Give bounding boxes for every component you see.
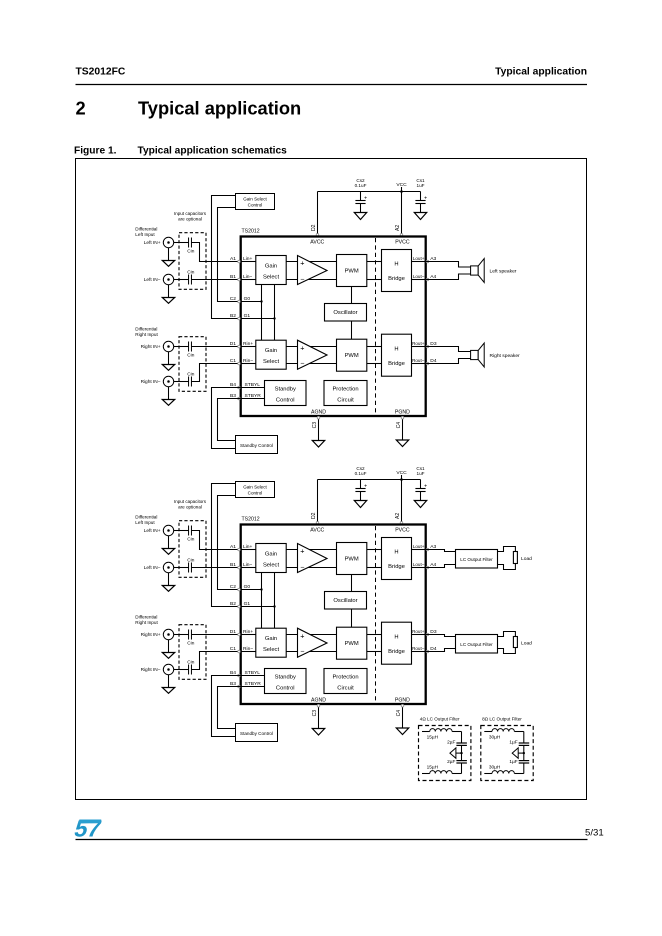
svg-text:Rin−: Rin− xyxy=(243,358,253,364)
svg-text:15µH: 15µH xyxy=(427,735,439,741)
wire G0 net xyxy=(241,300,263,302)
pin label A4 (lower schematic) xyxy=(430,562,436,568)
wire to LC filter left + xyxy=(426,550,456,552)
svg-text:Bridge: Bridge xyxy=(388,361,405,367)
dashed domain separator (lower schematic) xyxy=(375,526,377,703)
pin connector B3 (lower schematic) xyxy=(238,685,241,688)
label Cs2 0.1uF xyxy=(355,466,367,476)
label Cin (Left 2) xyxy=(187,558,194,564)
wire Left IN+ to Cin xyxy=(174,530,189,532)
inductor 15&#181;H bottom (4&#937; LC Output Filter) xyxy=(422,765,462,774)
svg-text:TS2012: TS2012 xyxy=(242,229,260,235)
svg-text:PVCC: PVCC xyxy=(395,527,410,533)
wire LC filter to load bottom left xyxy=(498,564,516,570)
pin label Lout+ (lower schematic) xyxy=(413,544,425,549)
PWM block right channel xyxy=(337,339,367,371)
pin connector A3 xyxy=(426,260,429,263)
wire Cin to IC pin (Left IN-) xyxy=(191,279,240,281)
input jack Right IN- xyxy=(141,664,174,674)
pin label D4 (lower schematic) xyxy=(430,646,437,652)
label PGND xyxy=(395,409,410,415)
pin connector B3 xyxy=(238,397,241,400)
wire Left IN- to Cin xyxy=(174,279,189,281)
pin label Lin&#8722; xyxy=(243,562,253,568)
svg-text:B1: B1 xyxy=(230,274,236,280)
LC output filter block left xyxy=(456,550,498,569)
wire right channel (lower schematic) input- row xyxy=(241,651,256,653)
ground below Right IN- xyxy=(162,675,174,694)
svg-text:Lout+: Lout+ xyxy=(413,544,425,549)
input jack Left IN+ xyxy=(144,237,174,247)
pin connector A3 (lower schematic) xyxy=(426,548,429,551)
svg-text:Control: Control xyxy=(248,203,263,208)
label TS2012 xyxy=(242,229,260,235)
wire left channel (lower schematic) input+ row xyxy=(241,549,256,551)
svg-text:Differential: Differential xyxy=(135,515,157,520)
wire Right IN+ to Cin xyxy=(174,346,189,348)
pin connector A1 (lower schematic) xyxy=(238,548,241,551)
pin label D2 xyxy=(311,224,317,231)
svg-text:Control: Control xyxy=(248,491,263,496)
svg-text:are optional: are optional xyxy=(178,217,202,222)
wire B4 to external standby control (lower schematic) xyxy=(212,676,241,737)
H-bridge block left channel xyxy=(382,250,412,292)
ground PGND (lower schematic) xyxy=(396,728,408,735)
svg-text:−: − xyxy=(300,358,304,367)
label Cin (Right 2) xyxy=(187,660,194,666)
svg-text:8Ω LC Output Filter: 8Ω LC Output Filter xyxy=(482,717,522,722)
svg-text:Lout+: Lout+ xyxy=(413,256,425,261)
gain select block left channel (lower schematic) xyxy=(256,544,286,573)
svg-text:0.1uF: 0.1uF xyxy=(355,183,367,188)
svg-text:Standby: Standby xyxy=(275,675,296,681)
ground below Cs2 xyxy=(354,213,366,220)
wire Right IN- to Cin xyxy=(174,669,189,671)
svg-text:+: + xyxy=(364,483,367,489)
svg-text:+: + xyxy=(424,195,427,201)
wire Left IN+ to Cin xyxy=(174,242,189,244)
svg-text:Rout−: Rout− xyxy=(412,646,425,651)
input jack Right IN+ xyxy=(141,629,174,639)
svg-text:Load: Load xyxy=(521,641,532,647)
wire Cin to IC pin (Right IN+) xyxy=(191,346,240,348)
pin label C1 (lower schematic) xyxy=(230,646,237,652)
svg-text:+: + xyxy=(300,258,304,267)
op-amp right channel xyxy=(298,340,328,369)
svg-text:Protection: Protection xyxy=(332,387,358,393)
optional input capacitors dashed box (Right) xyxy=(179,337,206,392)
pin connector D3 xyxy=(426,345,429,348)
input jack Right IN- xyxy=(141,376,174,386)
svg-text:B2: B2 xyxy=(230,313,236,319)
wire H-bridge out- left channel (lower schematic) xyxy=(412,567,426,569)
dashed domain separator xyxy=(375,238,377,415)
wire PVCC pin A2 xyxy=(401,192,403,237)
capacitor Cs2 xyxy=(355,192,367,213)
label PVCC (lower schematic) xyxy=(395,527,410,533)
section heading Typical application xyxy=(138,98,301,119)
wire to LC filter right - xyxy=(426,649,456,652)
wire right channel (lower schematic) input+ row xyxy=(241,634,256,636)
protection circuit block (lower schematic) xyxy=(324,669,367,694)
svg-text:B1: B1 xyxy=(230,562,236,568)
svg-text:PWM: PWM xyxy=(345,268,359,274)
capacitor 1&#181;F bottom (8&#937; LC Output Filter) xyxy=(509,759,529,765)
pin label Rin+ xyxy=(243,341,253,347)
label Cin (Right 1) xyxy=(187,353,194,359)
svg-text:Oscillator: Oscillator xyxy=(333,598,357,604)
svg-text:C1: C1 xyxy=(230,646,237,652)
svg-text:A2: A2 xyxy=(395,513,401,519)
pin connector B2 (lower schematic) xyxy=(238,605,241,608)
pin label Rin&#8722; xyxy=(243,646,253,652)
svg-text:+: + xyxy=(300,546,304,555)
wire G0 net (lower schematic) xyxy=(241,588,263,590)
IC TS2012 body xyxy=(241,237,426,417)
wire gain-select to PWM - left channel xyxy=(286,279,336,281)
wire AVCC pin D2 xyxy=(317,192,319,237)
svg-text:PVCC: PVCC xyxy=(395,239,410,245)
label Cs1 1uF xyxy=(416,466,425,476)
capacitor Cs2 xyxy=(355,480,367,501)
svg-text:Lin−: Lin− xyxy=(243,274,253,280)
wire H-bridge out+ left channel (lower schematic) xyxy=(412,549,426,551)
svg-text:Left IN−: Left IN− xyxy=(144,277,161,283)
svg-text:Rin−: Rin− xyxy=(243,646,253,652)
capacitor 2&#181;F top (4&#937; LC Output Filter) xyxy=(447,740,467,746)
svg-text:D1: D1 xyxy=(230,629,237,635)
label VCC xyxy=(396,182,407,193)
speaker load (4&#937; LC Output Filter) xyxy=(450,748,463,758)
ground below Left IN+ xyxy=(162,248,174,267)
wire PGND C4 (lower schematic) xyxy=(402,704,404,728)
svg-text:Gain Select: Gain Select xyxy=(243,484,267,489)
external standby control box (lower schematic) xyxy=(236,724,278,742)
svg-text:2µF: 2µF xyxy=(447,759,455,765)
svg-text:Cs2: Cs2 xyxy=(356,466,365,471)
wire to Left speaker + xyxy=(426,262,471,268)
wire PWM to H-bridge top left channel (lower schematic) xyxy=(367,549,382,551)
pin label D1 (lower schematic) xyxy=(230,629,237,635)
svg-text:VCC: VCC xyxy=(396,470,407,476)
label 8&#937; LC Output Filter xyxy=(482,717,522,722)
wire PWM to H-bridge top left channel xyxy=(367,261,382,263)
capacitor label C4 xyxy=(396,422,402,429)
label Cin (Right 1) xyxy=(187,641,194,647)
pin connector B4 (lower schematic) xyxy=(238,674,241,677)
wire left channel (lower schematic) input- row xyxy=(241,567,256,569)
wire AVCC pin D2 xyxy=(317,480,319,525)
page number 5/31 xyxy=(585,828,604,839)
wire AGND C3 xyxy=(318,416,320,441)
pin label D3 xyxy=(430,341,437,347)
wire gain-select-control to G0/C2 xyxy=(218,208,241,302)
input jack Left IN- xyxy=(144,562,174,572)
wire H-bridge out- right channel (lower schematic) xyxy=(412,651,426,653)
svg-text:Control: Control xyxy=(276,398,295,404)
IC TS2012 body (lower schematic) xyxy=(241,525,426,705)
svg-text:Standby Control: Standby Control xyxy=(240,443,273,448)
svg-text:Standby Control: Standby Control xyxy=(240,731,273,736)
ground below Right IN- xyxy=(162,387,174,406)
label Cin (Right 2) xyxy=(187,372,194,378)
wire gain-select to PWM - right channel (lower schematic) xyxy=(286,651,336,653)
svg-text:1µF: 1µF xyxy=(509,759,517,765)
wire oscillator to PWM2 xyxy=(351,321,353,339)
svg-text:Left IN+: Left IN+ xyxy=(144,528,161,534)
wire STBYL xyxy=(241,387,265,389)
label PVCC xyxy=(395,239,410,245)
label VCC xyxy=(396,470,407,481)
svg-text:H: H xyxy=(394,262,398,268)
svg-text:Gain Select: Gain Select xyxy=(243,196,267,201)
gain select control box (lower schematic) xyxy=(236,482,275,498)
pin label D2 xyxy=(311,512,317,519)
pin connector D3 (lower schematic) xyxy=(426,633,429,636)
pin connector A1 xyxy=(238,260,241,263)
svg-text:Right speaker: Right speaker xyxy=(490,353,521,359)
pin connector D1 (lower schematic) xyxy=(238,633,241,636)
pin label C1 xyxy=(230,358,237,364)
pin connector D4 (lower schematic) xyxy=(426,650,429,653)
wire PWM to H-bridge bottom right channel xyxy=(367,363,382,365)
wire H-bridge out+ right channel xyxy=(412,346,426,348)
pin label D1 xyxy=(230,341,237,347)
svg-text:4Ω LC Output Filter: 4Ω LC Output Filter xyxy=(420,717,460,722)
svg-text:Circuit: Circuit xyxy=(337,686,354,692)
label Load left xyxy=(521,556,532,562)
input jack Left IN- xyxy=(144,274,174,284)
ST logo xyxy=(72,816,104,842)
wire to LC filter left - xyxy=(426,565,456,568)
optional input capacitors dashed box (Left) xyxy=(179,233,206,290)
op-amp right channel (lower schematic) xyxy=(298,628,328,657)
svg-text:Lin+: Lin+ xyxy=(243,544,253,550)
footer rule xyxy=(76,839,588,841)
label Differential Right Input xyxy=(135,615,158,626)
oscillator block xyxy=(325,304,367,322)
svg-text:Cin: Cin xyxy=(187,353,194,359)
svg-text:VCC: VCC xyxy=(396,182,407,188)
svg-text:Input capacitors: Input capacitors xyxy=(174,211,207,216)
wire Cin to IC pin (Left IN+) xyxy=(191,531,240,550)
capacitor 1&#181;F top (8&#937; LC Output Filter) xyxy=(509,740,529,746)
section number 2 xyxy=(76,98,86,119)
capacitor Cs1 xyxy=(415,480,427,501)
pin connector D2 xyxy=(316,522,319,525)
label Cin (Left 1) xyxy=(187,537,194,543)
svg-text:C3: C3 xyxy=(312,422,318,429)
label PGND (lower schematic) xyxy=(395,697,410,703)
wire vertical (8&#937; LC Output Filter) xyxy=(523,732,525,774)
ground below Cs2 xyxy=(354,501,366,508)
ground below Left IN- xyxy=(162,573,174,592)
wire Cin to IC pin (Left IN+) xyxy=(191,243,240,262)
svg-text:D2: D2 xyxy=(311,512,317,519)
svg-text:0.1uF: 0.1uF xyxy=(355,471,367,476)
svg-text:1uF: 1uF xyxy=(417,471,425,476)
wire H-bridge out+ left channel xyxy=(412,261,426,263)
wire to LC filter right + xyxy=(426,635,456,637)
svg-text:Differential: Differential xyxy=(135,615,157,620)
svg-text:STBYR: STBYR xyxy=(245,681,262,687)
wire right channel input+ row xyxy=(241,346,256,348)
pin label Lin+ xyxy=(243,544,253,550)
inductor 15&#181;H top (4&#937; LC Output Filter) xyxy=(422,729,462,741)
op-amp left channel (lower schematic) xyxy=(298,544,328,573)
svg-text:C4: C4 xyxy=(396,422,402,429)
wire VCC supply rail xyxy=(318,191,421,193)
pin label Lin+ xyxy=(243,256,253,262)
svg-text:−: − xyxy=(300,562,304,571)
input jack Left IN+ xyxy=(144,525,174,535)
ground PGND xyxy=(396,440,408,447)
capacitor label C3 xyxy=(312,422,318,429)
pin label B2 xyxy=(230,313,236,319)
inductor 30&#181;H top (8&#937; LC Output Filter) xyxy=(484,729,524,741)
label Right speaker xyxy=(490,353,521,359)
H-bridge block right channel (lower schematic) xyxy=(382,622,412,664)
Left speaker symbol xyxy=(471,259,485,283)
pin label Rout- xyxy=(412,358,425,363)
svg-text:Gain: Gain xyxy=(265,551,277,557)
header rule xyxy=(76,84,588,86)
svg-text:−: − xyxy=(300,274,304,283)
svg-text:Select: Select xyxy=(263,275,280,281)
svg-text:Gain: Gain xyxy=(265,636,277,642)
svg-text:+: + xyxy=(364,195,367,201)
svg-text:1µF: 1µF xyxy=(509,740,517,746)
pin label Lout+ xyxy=(413,256,425,261)
svg-text:Rin+: Rin+ xyxy=(243,629,253,635)
pin label Rin&#8722; xyxy=(243,358,253,364)
svg-text:STBYL: STBYL xyxy=(245,382,261,388)
wire gain-select to PWM + left channel (lower schematic) xyxy=(286,549,336,551)
label 4&#937; LC Output Filter xyxy=(420,717,460,722)
svg-text:H: H xyxy=(394,346,398,352)
pin connector A2 xyxy=(400,522,403,525)
pin connector A4 xyxy=(426,278,429,281)
wire gain-select to PWM - left channel (lower schematic) xyxy=(286,567,336,569)
pin connector PGND (lower schematic) xyxy=(401,704,404,707)
svg-text:STBYR: STBYR xyxy=(245,393,262,399)
svg-text:Differential: Differential xyxy=(135,227,157,232)
wire gain bus 1 (lower schematic) xyxy=(261,573,263,629)
svg-text:Lout−: Lout− xyxy=(413,274,425,279)
speaker load (8&#937; LC Output Filter) xyxy=(512,748,525,758)
svg-text:Oscillator: Oscillator xyxy=(333,310,357,316)
wire gain-select to PWM + right channel (lower schematic) xyxy=(286,634,336,636)
H-bridge block right channel xyxy=(382,334,412,376)
svg-text:Rout+: Rout+ xyxy=(412,341,425,346)
pin label B2 (lower schematic) xyxy=(230,601,236,607)
svg-text:+: + xyxy=(424,483,427,489)
svg-text:Rout+: Rout+ xyxy=(412,629,425,634)
ground below Left IN- xyxy=(162,285,174,304)
ground below Cs1 xyxy=(414,501,426,508)
svg-text:−: − xyxy=(300,646,304,655)
capacitor 2&#181;F bottom (4&#937; LC Output Filter) xyxy=(447,759,467,765)
pin label Lout- (lower schematic) xyxy=(413,562,425,567)
label AVCC xyxy=(310,239,324,245)
capacitor Cin (Left IN+) xyxy=(189,238,192,248)
svg-text:Circuit: Circuit xyxy=(337,398,354,404)
Right speaker symbol xyxy=(471,343,485,367)
svg-text:+: + xyxy=(300,631,304,640)
svg-text:C2: C2 xyxy=(230,584,237,590)
svg-text:Gain: Gain xyxy=(265,263,277,269)
pin label B1 (lower schematic) xyxy=(230,562,236,568)
svg-text:5/31: 5/31 xyxy=(585,828,604,839)
capacitor Cin (Left IN+) xyxy=(189,526,192,536)
gain select block right channel xyxy=(256,340,286,369)
pin label Lout- xyxy=(413,274,425,279)
figure caption xyxy=(74,146,287,157)
wire to Right speaker - xyxy=(426,359,471,364)
pin connector PGND xyxy=(401,416,404,419)
LC output filter block right xyxy=(456,635,498,654)
wire left channel input- row xyxy=(241,279,256,281)
wire to Right speaker + xyxy=(426,347,471,352)
wire B3 to external standby control xyxy=(218,399,241,441)
pin connector B1 (lower schematic) xyxy=(238,566,241,569)
svg-text:Right IN−: Right IN− xyxy=(141,667,161,673)
svg-text:Left Input: Left Input xyxy=(135,232,155,237)
svg-text:Cs1: Cs1 xyxy=(416,466,425,471)
wire Cin to IC pin (Right IN-) xyxy=(191,364,240,382)
ground below Cs1 xyxy=(414,213,426,220)
wire left channel input+ row xyxy=(241,261,256,263)
wire PWM to H-bridge top right channel (lower schematic) xyxy=(367,634,382,636)
svg-text:Right IN−: Right IN− xyxy=(141,379,161,385)
svg-text:15µH: 15µH xyxy=(427,765,439,771)
ground below Left IN+ xyxy=(162,536,174,555)
pin label A2 xyxy=(395,513,401,519)
standby control block xyxy=(265,381,307,406)
svg-text:C3: C3 xyxy=(312,710,318,717)
label AVCC (lower schematic) xyxy=(310,527,324,533)
svg-text:Typical application schematics: Typical application schematics xyxy=(138,146,288,157)
pin label D4 xyxy=(430,358,437,364)
svg-text:Cin: Cin xyxy=(187,249,194,255)
external standby control box xyxy=(236,436,278,454)
svg-text:PGND: PGND xyxy=(395,409,410,415)
svg-text:C2: C2 xyxy=(230,296,237,302)
pin label B3 xyxy=(230,393,236,399)
pin label STBYR (lower schematic) xyxy=(245,681,262,687)
svg-text:Cin: Cin xyxy=(187,372,194,378)
wire gain bus 2 (lower schematic) xyxy=(274,573,276,629)
pin connector C1 xyxy=(238,362,241,365)
svg-text:+: + xyxy=(300,343,304,352)
svg-text:Cs2: Cs2 xyxy=(356,178,365,183)
wire oscillator to PWM2 (lower schematic) xyxy=(351,609,353,627)
svg-text:Select: Select xyxy=(263,563,280,569)
svg-text:2: 2 xyxy=(76,98,86,119)
svg-text:LC Output Filter: LC Output Filter xyxy=(460,557,493,562)
svg-text:Cin: Cin xyxy=(187,537,194,543)
svg-text:Control: Control xyxy=(276,686,295,692)
wire Cin to IC pin (Left IN-) xyxy=(191,567,240,569)
wire gain-select-control to G0/C2 (lower schematic) xyxy=(218,496,241,590)
svg-text:Lout−: Lout− xyxy=(413,562,425,567)
pin connector D4 xyxy=(426,362,429,365)
pin connector C2 (lower schematic) xyxy=(238,588,241,591)
svg-text:Protection: Protection xyxy=(332,675,358,681)
label AGND (lower schematic) xyxy=(311,697,326,703)
input jack Right IN+ xyxy=(141,341,174,351)
wire Right IN- to Cin xyxy=(174,381,189,383)
